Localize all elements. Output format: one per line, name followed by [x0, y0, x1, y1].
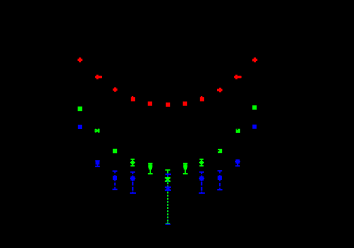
blue errorbar I bottom cap — [165, 223, 170, 225]
blue square B2 — [252, 125, 256, 129]
green errorbar E bottom cap — [166, 223, 171, 225]
red square S5 — [148, 102, 152, 106]
blue errorbar H — [130, 172, 136, 193]
blue square B1 — [78, 125, 82, 129]
red plus P10 — [234, 75, 239, 79]
red square S4 — [131, 97, 135, 101]
blue errorbar K — [217, 171, 222, 190]
center line bottom stem — [167, 222, 169, 224]
red tick above S4 — [132, 96, 134, 98]
blue dot on star E — [167, 181, 169, 182]
red plus P1 — [78, 58, 83, 63]
red plus P11 — [253, 58, 258, 63]
blue errorbar L — [235, 159, 240, 166]
red nub left of P11 — [252, 59, 253, 61]
blue errorbar J — [199, 172, 205, 193]
red nub left of P9 — [217, 89, 219, 91]
red square S6 — [166, 103, 170, 107]
green errorbar C — [183, 164, 188, 174]
blue errorbar G — [112, 171, 117, 189]
red plus P2 — [95, 75, 100, 79]
red square S7 — [183, 102, 187, 106]
green square G4 — [218, 149, 222, 153]
red square S8 — [200, 97, 204, 101]
green errorbar E top cap — [165, 170, 170, 173]
red tick above S8 — [201, 96, 203, 98]
green square G1 — [78, 107, 83, 112]
green errorbar D — [199, 159, 204, 166]
green errorbar E dotted line — [167, 183, 169, 222]
green square G3 — [113, 149, 117, 153]
red plus P3 — [113, 87, 118, 91]
green errorbar A — [130, 159, 135, 166]
blue star I — [165, 186, 171, 191]
green star GX1 — [95, 129, 99, 133]
red plus P9 — [218, 88, 223, 92]
blue errorbar I top cap — [165, 173, 171, 176]
green square GX2 — [236, 129, 240, 133]
blue errorbar F — [95, 161, 100, 167]
blue errorbar I dotted line — [167, 176, 169, 224]
green errorbar B — [148, 164, 153, 174]
red plus P10b — [238, 76, 241, 79]
red plus P2b — [99, 76, 102, 79]
green star E — [165, 177, 171, 182]
green square G2 — [252, 105, 256, 109]
